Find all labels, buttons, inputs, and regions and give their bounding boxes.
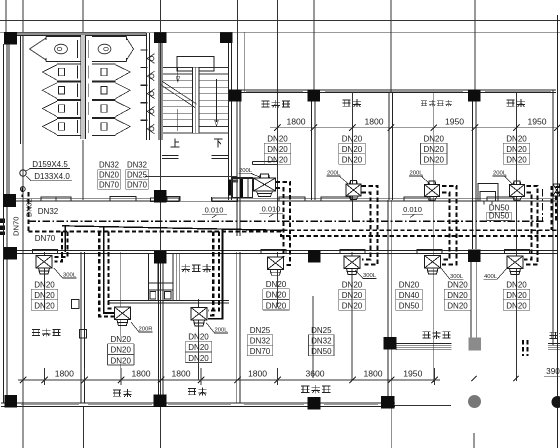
toilet stall bank1 top stall: [46, 37, 81, 62]
svg-text:DN32: DN32: [99, 161, 119, 170]
dimension tick bottom x237.5: [234, 377, 240, 383]
drain pipe FC bottom-1 (solid): [64, 226, 66, 252]
sill box north wall room2: [321, 197, 351, 201]
DN20 stack room3: [419, 143, 421, 164]
south-east inset wall: [396, 343, 452, 345]
return main B: [28, 231, 557, 236]
svg-text:300L: 300L: [63, 273, 77, 279]
svg-text:0.010: 0.010: [205, 206, 224, 215]
toilet stall row 5 chevrons: [42, 119, 57, 134]
dim ext lines bottom: [44, 368, 46, 385]
corridor south wall: [7, 250, 558, 252]
sill box south wall FC3: [261, 249, 286, 253]
shaft box on partition 1b: [80, 330, 87, 339]
urinal screen 1: [141, 49, 148, 51]
stair west wall: [158, 33, 160, 140]
grid axis vertical 6 (fan line room1): [277, 0, 279, 222]
stair treads: [163, 67, 229, 69]
pipe sleeves west wall: [0, 219, 5, 224]
room name rest bottom-2: [188, 388, 196, 394]
centre line bottom room1 fan: [44, 252, 46, 310]
svg-text:DN20: DN20: [267, 134, 288, 143]
svg-text:1800: 1800: [363, 369, 382, 379]
room name office top (ban gong shi): [261, 101, 269, 107]
svg-text:DN20: DN20: [342, 291, 363, 300]
svg-text:DN25: DN25: [127, 171, 148, 180]
svg-text:DN20: DN20: [342, 280, 363, 289]
grid axis vertical 3: [82, 0, 84, 33]
sill box corridor 2: [110, 196, 136, 201]
svg-text:DN20: DN20: [267, 145, 288, 154]
svg-text:DN20: DN20: [506, 156, 527, 165]
svg-text:D133X4.0: D133X4.0: [34, 172, 70, 181]
svg-text:1800: 1800: [171, 369, 190, 379]
svg-text:DN32: DN32: [311, 337, 332, 346]
grid axis vertical 1: [5, 0, 7, 33]
pipe label stack left A: [97, 169, 99, 189]
svg-text:DN20: DN20: [188, 354, 209, 363]
toilet west wall: [20, 33, 22, 144]
west wall: [3, 44, 5, 403]
dimension tick bottom x201: [198, 377, 204, 383]
washroom south wall: [108, 299, 229, 301]
sill box north wall room3: [404, 197, 430, 201]
grid axis vertical 7: [313, 0, 315, 93]
svg-text:300L: 300L: [363, 273, 377, 279]
urinal 1: [147, 54, 154, 64]
svg-text:1950: 1950: [445, 116, 464, 126]
partition room2/3: [388, 93, 390, 200]
sill box corridor 3: [167, 197, 180, 201]
svg-text:DN40: DN40: [399, 291, 420, 300]
svg-text:DN20: DN20: [266, 280, 287, 289]
urinal 2: [147, 71, 154, 81]
toilet east wall: [146, 33, 148, 140]
condensate main (chain line): [28, 220, 545, 222]
stair lobby line: [145, 176, 237, 178]
grid axis vertical 8: [390, 0, 392, 93]
grid axis horizontal 2: [0, 31, 560, 33]
room name office far-right partial: [549, 332, 557, 338]
toilet stall row 4 partitions: [57, 99, 81, 101]
beam mark above FC top-1: [253, 160, 278, 162]
svg-text:DN20: DN20: [506, 280, 527, 289]
condensate riser circle: [20, 170, 26, 176]
structural column C13: [384, 337, 397, 350]
svg-text:DN20: DN20: [447, 280, 468, 289]
room name rest 2: [506, 100, 514, 106]
svg-text:DN20: DN20: [423, 134, 444, 143]
svg-text:200L: 200L: [409, 171, 423, 177]
svg-text:1950: 1950: [527, 116, 546, 126]
structural column C10: [154, 251, 167, 264]
dimension tick top x557.5: [554, 125, 560, 131]
svg-text:DN32: DN32: [25, 199, 34, 217]
dimension tick top x277.5: [274, 125, 280, 131]
branch pipes to FC bottom-1: [55, 231, 62, 261]
svg-text:DN32: DN32: [250, 337, 271, 346]
north wall of office rooms: [241, 89, 556, 91]
svg-text:D159X4.5: D159X4.5: [32, 160, 68, 169]
structural column C16: [308, 397, 321, 410]
dimension tick bottom x44.5: [41, 377, 47, 383]
svg-text:DN20: DN20: [267, 156, 288, 165]
svg-text:DN20: DN20: [399, 280, 420, 289]
DN20 stack room4: [502, 143, 504, 164]
svg-text:DN20: DN20: [506, 291, 527, 300]
partition room3/4: [472, 93, 474, 249]
grid axis vertical 9: [474, 0, 476, 90]
DN stack centre-right: [308, 335, 310, 356]
wall above E1: [233, 177, 253, 179]
svg-text:DN20: DN20: [34, 302, 55, 311]
dimension line top: [270, 127, 558, 129]
urinal screen 3: [141, 84, 148, 86]
round column 2 (edge): [552, 396, 560, 408]
DN stack bottom room4b: [395, 289, 397, 310]
structural column C4: [229, 90, 242, 102]
svg-text:DN20: DN20: [506, 145, 527, 154]
urinal 4: [147, 107, 154, 117]
DN20 stack bottom room5: [443, 289, 445, 310]
svg-text:400L: 400L: [484, 274, 498, 280]
manifold E2: [478, 184, 498, 202]
toilet stall row 2 doors: [77, 66, 79, 79]
DN20 stack lower-left: [106, 344, 108, 365]
dimension tick top x391: [388, 125, 394, 131]
svg-text:DN25: DN25: [250, 326, 271, 335]
urinal screen 4: [141, 102, 148, 104]
stair lobby wall: [162, 155, 179, 157]
riser stub bottom-right: [522, 340, 524, 356]
fan coil FC washroom: [191, 308, 207, 327]
toilet stall row 4 doors: [77, 102, 79, 115]
svg-text:300L: 300L: [450, 274, 464, 280]
structural column C9: [4, 247, 17, 260]
centre line bottom room3 fan: [198, 299, 200, 362]
svg-text:DN70: DN70: [99, 181, 120, 190]
svg-text:DN20: DN20: [342, 134, 363, 143]
door gap stair: [180, 198, 212, 202]
svg-text:200L: 200L: [239, 168, 253, 174]
toilet bank top stall doors: [77, 40, 79, 58]
structural column C6: [468, 90, 481, 102]
structural column C7: [3, 194, 16, 207]
dimension tick bottom x391: [388, 377, 394, 383]
dimension tick top x475: [472, 125, 478, 131]
partial fan coil east edge: [553, 184, 560, 196]
toilet stall row 3 chevrons: [42, 83, 57, 99]
dim ticks far right: [471, 376, 476, 381]
stair label shang: [171, 139, 180, 147]
lower partition 3: [235, 252, 237, 403]
lower partition 4 east wall: [387, 200, 389, 407]
dimension tick bottom x84.5: [81, 377, 87, 383]
structural column C3: [220, 33, 233, 44]
svg-text:200L: 200L: [214, 328, 228, 334]
svg-text:1800: 1800: [55, 369, 74, 379]
svg-text:DN20: DN20: [423, 145, 444, 154]
stair label xia: [214, 139, 223, 148]
sill box south wall FC4: [340, 249, 365, 253]
centre line room2 fan: [352, 93, 354, 222]
room name office bottom-centre: [301, 386, 309, 393]
dimension tick top x314: [311, 125, 317, 131]
fan coil FC bottom-4: [344, 256, 360, 275]
room name chief judge office: [421, 101, 427, 106]
room name office bottom-left: [32, 329, 40, 335]
grey column square: [469, 338, 482, 351]
DN20 stack room1: [263, 143, 265, 164]
toilet stall bank2 top stall: [92, 37, 127, 62]
supply main riser: [27, 192, 29, 231]
branch pipes to FC washroom: [208, 231, 213, 315]
svg-text:DN20: DN20: [266, 291, 287, 300]
dimension tick top x352.5: [349, 125, 355, 131]
toilet centre wall: [81, 35, 86, 139]
svg-text:DN20: DN20: [110, 346, 131, 355]
svg-text:200L: 200L: [493, 171, 507, 177]
svg-text:DN20: DN20: [506, 302, 527, 311]
structural column C14: [5, 395, 18, 408]
fan coil FC bottom-6: [507, 256, 523, 275]
svg-text:DN20: DN20: [342, 302, 363, 311]
riser equipment E1 bar: [228, 180, 231, 196]
dimension line bottom: [18, 379, 440, 381]
svg-text:200L: 200L: [327, 171, 341, 177]
DN20 stack bottom room3: [262, 289, 264, 310]
dimension tick top x433.7: [431, 125, 437, 131]
loop pipes east edge: [552, 187, 560, 230]
structural column C2: [154, 33, 167, 44]
urinal screen 2: [141, 67, 148, 69]
svg-text:1800: 1800: [286, 116, 305, 126]
sill box corridor 1: [41, 197, 71, 201]
svg-text:DN20: DN20: [423, 156, 444, 165]
dimension tick top x516.5: [513, 125, 519, 131]
svg-text:DN20: DN20: [188, 343, 209, 352]
supply main A: [283, 229, 557, 231]
toilet stall row 3 partitions: [57, 81, 81, 83]
sill box south wall FC5: [417, 249, 442, 253]
condensate chain riser room4: [542, 189, 544, 221]
toilet stall row 2 chevrons: [42, 65, 57, 80]
fan coil FC bottom-5: [425, 256, 441, 275]
dimension tick bottom x277.5: [274, 377, 280, 383]
centre line room4 fan: [516, 93, 518, 381]
corridor north wall: [16, 197, 558, 199]
dimension tick bottom x434.5: [431, 377, 437, 383]
svg-text:1950: 1950: [403, 369, 422, 379]
svg-text:1800: 1800: [131, 369, 150, 379]
sill box north wall room4: [487, 197, 514, 201]
fan coil FC top-1 (wide): [254, 178, 276, 191]
stair up arrow: [177, 68, 179, 82]
grid axis vertical 2: [22, 0, 24, 448]
toilet north wall: [17, 32, 146, 35]
centre line bottom room2 fan: [120, 252, 122, 336]
toilet stall row 5 partitions: [57, 117, 81, 119]
svg-text:1800: 1800: [248, 369, 267, 379]
svg-text:DN20: DN20: [110, 356, 131, 365]
stair break line: [161, 85, 195, 108]
DN50 stack: [486, 212, 488, 220]
washroom cells: [148, 253, 150, 300]
grid axis vertical 4: [160, 0, 162, 448]
riser pipes room1 (to FC top-1 and FC bottom-3): [276, 182, 291, 265]
DN20 stack washroom FC: [184, 341, 186, 362]
room name office bottom-right: [422, 332, 430, 338]
svg-text:DN70: DN70: [35, 234, 56, 243]
svg-text:DN70: DN70: [12, 217, 21, 236]
grid axis vertical 5: [237, 0, 239, 93]
fan coil FC bottom-1: [36, 256, 52, 275]
lower partition 2: [158, 252, 160, 403]
svg-text:DN50: DN50: [311, 347, 332, 356]
DN20 stack room2: [338, 143, 340, 164]
stair rail: [193, 67, 200, 133]
svg-text:0.010: 0.010: [403, 205, 422, 214]
centre line bottom room4 fan: [351, 252, 353, 380]
south-east inset wall right part: [548, 343, 560, 345]
stair landing opening: [177, 57, 214, 72]
riser pipes room4 (to FC top-4 and FC bottom-6): [524, 186, 538, 265]
shaft wall east of stair: [236, 93, 238, 236]
room name rest bottom-1: [113, 390, 121, 396]
toilet wc marks row 4: [59, 105, 65, 113]
svg-text:DN20: DN20: [99, 171, 120, 180]
stair east wall: [228, 43, 230, 200]
sill box south wall FC6: [505, 249, 530, 253]
structural column C8: [154, 190, 167, 203]
toilet wc marks row 3: [59, 86, 65, 94]
svg-text:DN20: DN20: [447, 302, 468, 311]
svg-text:DN20: DN20: [506, 134, 527, 143]
svg-text:200R: 200R: [138, 327, 152, 333]
DN20 stack bottom room4: [338, 289, 340, 310]
dimension tick bottom x23: [20, 377, 26, 383]
fan coil FC top-4: [510, 181, 525, 200]
grid axis horizontal 1: [0, 20, 560, 22]
urinal 5: [147, 124, 154, 134]
fan coil FC bottom-3: [268, 257, 284, 276]
svg-text:DN20: DN20: [188, 333, 209, 342]
svg-text:DN20: DN20: [34, 280, 55, 289]
structural column C11: [308, 250, 321, 263]
svg-text:3600: 3600: [305, 369, 324, 379]
shaft box on partition 1a: [72, 300, 80, 309]
urinal 3: [147, 89, 154, 99]
sill stair bay east: [212, 198, 238, 202]
toilet stall row 4 chevrons: [42, 101, 57, 116]
window mullion lines south wall: [21, 404, 79, 406]
dimension tick bottom x352.5: [349, 377, 355, 383]
svg-text:DN32: DN32: [127, 161, 147, 170]
fan coil FC bottom-2: [114, 307, 130, 326]
dimension tick bottom x161: [158, 377, 164, 383]
window mullion lines north wall: [246, 90, 303, 92]
structural column C12: [468, 250, 481, 263]
riser pipes room2 (to FC top-2 and FC bottom-4): [362, 186, 378, 265]
stair down arrow: [216, 79, 218, 122]
grey round column 1: [468, 395, 481, 408]
riser equipment E1 box: [233, 178, 253, 198]
svg-text:1800: 1800: [364, 116, 383, 126]
svg-text:DN50: DN50: [489, 212, 510, 221]
svg-text:DN70: DN70: [250, 347, 271, 356]
toilet wc marks row 5: [59, 123, 65, 131]
drain pipe FC bottom-2 (solid): [104, 227, 114, 313]
riser pipes room3 (to FC top-3 and FC bottom-5): [441, 186, 457, 265]
structural column C1: [4, 32, 17, 45]
svg-text:DN20: DN20: [342, 145, 363, 154]
lower partition 1: [80, 252, 82, 403]
structural column C5: [308, 90, 321, 102]
structural column C15: [154, 395, 167, 408]
DN20 stack bottom room1: [30, 289, 32, 310]
svg-text:DN50: DN50: [399, 302, 420, 311]
DN20 stack bottom room6: [502, 289, 504, 310]
svg-text:DN20: DN20: [342, 156, 363, 165]
svg-text:DN32: DN32: [38, 207, 59, 216]
svg-text:0.010: 0.010: [262, 205, 281, 214]
room name rest 1 (xiu xi): [342, 100, 350, 106]
urinal screen 5: [141, 119, 148, 121]
toilet wc marks row 2: [59, 68, 65, 76]
sill box south wall FC1: [33, 249, 58, 253]
condensate drain solid line: [62, 226, 283, 231]
structural column C17: [381, 396, 395, 409]
toilet stall row 3 doors: [77, 84, 79, 98]
riser line centre-right stack: [312, 296, 314, 378]
dimension tick bottom x121: [118, 377, 124, 383]
sill stair bay west: [151, 198, 180, 202]
washroom west partition: [176, 253, 178, 300]
east wall: [552, 90, 554, 345]
svg-text:DN25: DN25: [311, 326, 332, 335]
svg-text:DN20: DN20: [266, 301, 287, 310]
room name washroom (wei sheng jian): [181, 264, 189, 272]
south wall of lower rooms: [1, 402, 395, 404]
centre line room3 fan: [433, 93, 435, 382]
sill box north wall room1: [279, 197, 305, 201]
ground line south-east: [395, 405, 452, 407]
branch pipes to FC bottom-2 (long riser): [99, 231, 114, 316]
svg-text:DN20: DN20: [110, 335, 131, 344]
fan coil FC top-3: [425, 181, 440, 200]
drain pipe washroom (solid): [208, 229, 222, 318]
fan coil FC top-2: [346, 181, 361, 200]
svg-text:DN70: DN70: [127, 181, 148, 190]
svg-text:390: 390: [546, 367, 560, 376]
partition room1/2: [311, 93, 313, 200]
toilet stall row 5 doors: [77, 120, 79, 133]
svg-text:DN20: DN20: [34, 291, 55, 300]
pipe label stack left B: [125, 169, 127, 189]
centre line room1 fan lower: [277, 252, 279, 307]
svg-text:DN20: DN20: [447, 291, 468, 300]
toilet stall row 2 partitions: [57, 63, 81, 65]
DN stack centre-left: [246, 335, 248, 356]
